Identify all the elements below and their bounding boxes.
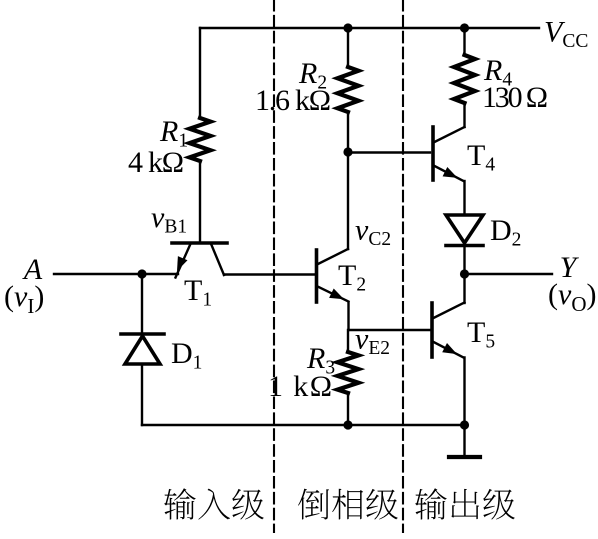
- transistor T4 base bar: [431, 127, 435, 180]
- resistor R2: [338, 67, 359, 112]
- transistor T4 emitter: [435, 166, 464, 181]
- node input junction: [137, 269, 146, 278]
- wire R1 bottom to T1 base: [199, 161, 201, 241]
- wire input A: [54, 273, 178, 275]
- transistor T5 collector: [434, 303, 465, 319]
- wire vC2 to T4 base: [348, 151, 430, 153]
- transistor T5 base bar: [430, 303, 434, 357]
- wire R2 to vC2 node: [347, 112, 349, 152]
- svg-text:(vI): (vI): [4, 280, 44, 318]
- wire vE2 to T5 base: [349, 329, 431, 331]
- svg-text:1.6 kΩ: 1.6 kΩ: [255, 84, 331, 117]
- node T5 emitter junction: [460, 420, 469, 429]
- resistor R3: [338, 352, 359, 393]
- node output Y junction: [460, 269, 469, 278]
- transistor T1 collector: [212, 245, 225, 275]
- label phase-splitter stage (Chinese): [298, 489, 398, 520]
- wire VCC rail: [200, 27, 539, 29]
- wire R4 to T4 collector: [463, 103, 465, 127]
- transistor T2 base bar: [315, 250, 319, 302]
- label input stage (Chinese): [164, 488, 264, 519]
- transistor T5 emitter: [434, 342, 464, 358]
- stage separator dashed line 2: [402, 0, 404, 532]
- node vC2 junction: [343, 147, 352, 156]
- label output stage (Chinese): [415, 488, 515, 519]
- wire R1 top vertical: [199, 28, 201, 118]
- wire T4 emitter to D2: [463, 181, 465, 213]
- svg-text:130 Ω: 130 Ω: [482, 81, 548, 114]
- ground: [463, 425, 465, 456]
- wire T2 emitter down to vE2: [347, 303, 349, 330]
- transistor T2 emitter: [318, 287, 349, 302]
- wire T1 collector to T2 base: [224, 273, 314, 275]
- wire vE2 down to R3: [347, 330, 349, 352]
- stage separator dashed line 1: [273, 0, 275, 532]
- wire VCC to R4: [463, 28, 465, 55]
- svg-text:1 kΩ: 1 kΩ: [268, 370, 332, 403]
- wire input junction to D1: [141, 274, 143, 332]
- wire output Y: [465, 273, 553, 275]
- transistor T1 emitter: [176, 245, 191, 278]
- wire T5 collector to output node: [463, 274, 465, 303]
- transistor T1 base bar: [172, 241, 227, 245]
- wire ground rail: [142, 424, 465, 426]
- transistor T4 collector: [435, 127, 465, 142]
- wire D1 to ground rail: [141, 366, 143, 425]
- transistor T2 collector: [318, 249, 348, 264]
- wire vC2 down to T2 collector: [347, 152, 349, 249]
- resistor R1: [190, 118, 211, 161]
- node VCC-R4 junction: [460, 23, 469, 32]
- wire R3 to ground rail: [347, 393, 349, 425]
- node VCC-R2 junction: [343, 23, 352, 32]
- wire D2 to output node: [463, 246, 465, 275]
- diode D1: [121, 334, 164, 364]
- svg-text:4 kΩ: 4 kΩ: [128, 146, 184, 179]
- wire VCC to R2: [347, 28, 349, 67]
- resistor R4: [454, 55, 475, 103]
- wire T5 emitter to ground rail: [463, 358, 465, 426]
- diode D2: [446, 215, 483, 246]
- node R3 bottom junction: [343, 420, 352, 429]
